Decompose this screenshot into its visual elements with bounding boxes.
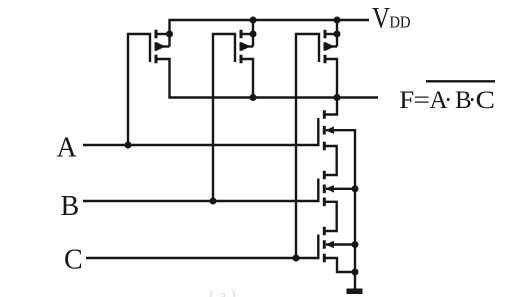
svg-text:C: C xyxy=(64,244,83,275)
svg-text:=: = xyxy=(414,87,431,114)
svg-text:(a): (a) xyxy=(209,286,240,297)
svg-text:·: · xyxy=(444,87,452,114)
svg-text:A: A xyxy=(57,133,78,164)
svg-text:V: V xyxy=(372,2,390,35)
svg-text:C: C xyxy=(476,87,496,114)
svg-text:F: F xyxy=(399,87,414,114)
svg-text:DD: DD xyxy=(390,12,411,31)
svg-text:B: B xyxy=(61,191,80,222)
